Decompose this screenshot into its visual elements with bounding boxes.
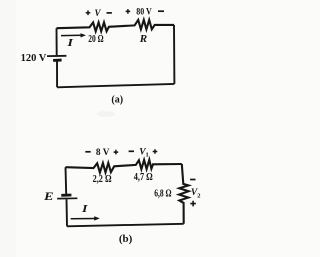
svg-text:120 V: 120 V: [21, 53, 48, 64]
svg-text:2,2 Ω: 2,2 Ω: [93, 174, 112, 185]
svg-text:V: V: [94, 8, 101, 18]
svg-text:(a): (a): [111, 94, 123, 105]
svg-text:R: R: [139, 33, 147, 45]
svg-text:8 V: 8 V: [96, 147, 110, 157]
svg-text:80 V: 80 V: [136, 6, 152, 16]
svg-text:4,7 Ω: 4,7 Ω: [134, 172, 153, 183]
svg-text:(b): (b): [119, 233, 133, 245]
svg-text:E: E: [43, 189, 54, 203]
svg-text:6,8 Ω: 6,8 Ω: [154, 189, 171, 200]
svg-text:20 Ω: 20 Ω: [88, 34, 103, 45]
